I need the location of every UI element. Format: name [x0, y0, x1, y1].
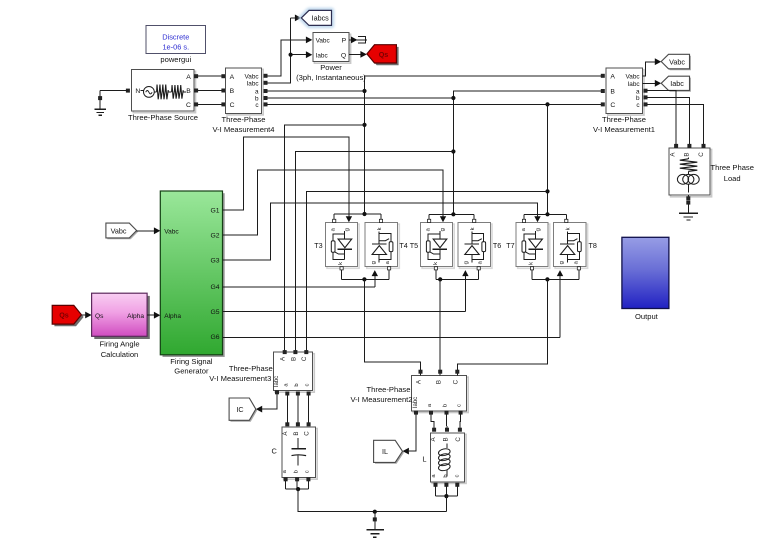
svg-text:B: B [435, 380, 442, 384]
svg-text:Load: Load [724, 174, 741, 183]
svg-text:g: g [371, 261, 377, 264]
svg-text:L: L [422, 454, 426, 463]
svg-text:P: P [342, 38, 347, 45]
svg-text:Firing Signal: Firing Signal [170, 357, 213, 366]
wire branch up to Iabcs tag [291, 15, 302, 55]
svg-text:Iabc: Iabc [670, 79, 684, 88]
svg-text:Output: Output [635, 312, 659, 321]
thyristor T6 [458, 223, 501, 269]
block Three-Phase V-I Measurement2 [350, 376, 468, 413]
svg-text:T3: T3 [314, 241, 322, 250]
junction phase a at capacitor branch [362, 123, 366, 127]
goto tag IC [229, 398, 257, 422]
svg-text:Vabc: Vabc [111, 226, 127, 235]
junction on Iabc wire [289, 53, 293, 57]
wire Measurement1 Vabc to Vabc goto [642, 58, 661, 76]
goto tag IL [374, 440, 404, 464]
junction phase b at capacitor branch [451, 149, 455, 153]
svg-text:g: g [535, 228, 541, 231]
svg-text:Calculation: Calculation [101, 350, 139, 359]
svg-text:Iabc: Iabc [628, 81, 641, 88]
block Firing Angle Calculation [92, 293, 150, 359]
wire Measurement3 c to C block C [307, 392, 310, 426]
svg-text:b: b [636, 95, 640, 102]
Measurement2 top ports [419, 370, 459, 375]
thyristor T3 [314, 223, 359, 269]
ground at bottom [367, 512, 384, 538]
pair2 anode tee (phase b) [428, 212, 476, 222]
svg-text:g: g [440, 228, 446, 231]
svg-text:Q: Q [341, 52, 346, 59]
svg-text:Power: Power [320, 63, 342, 72]
svg-text:V-I Measurement1: V-I Measurement1 [593, 125, 655, 134]
svg-text:k: k [338, 262, 344, 265]
thyristor T7 [506, 223, 550, 269]
wire G6 to T8 gate [223, 270, 564, 337]
svg-text:A: A [186, 74, 191, 81]
svg-text:a: a [255, 89, 259, 96]
svg-text:Alpha: Alpha [127, 313, 144, 320]
ground at source (wire+symbol) [94, 91, 128, 116]
svg-text:1e-06 s.: 1e-06 s. [162, 43, 189, 52]
svg-text:Qs: Qs [59, 311, 69, 320]
svg-text:Iabc: Iabc [274, 376, 280, 387]
wire G5 to T6 gate [223, 270, 469, 311]
block powergui (Discrete 1e-06 s.) [146, 26, 206, 64]
riser phase b with corner to Measurement1 B [453, 89, 604, 214]
block Three-Phase V-I Measurement3 [209, 352, 314, 392]
svg-text:Firing Angle: Firing Angle [99, 340, 139, 349]
svg-text:C: C [304, 431, 311, 436]
wire source B to Measurement4 B [195, 89, 226, 92]
wire Power P to terminator [349, 37, 357, 44]
svg-text:Alpha: Alpha [164, 313, 181, 320]
block Output (scope image) [622, 237, 669, 321]
Measurement3 top ports [283, 351, 308, 354]
wire Measurement3 a to C block A [286, 392, 289, 426]
svg-text:B: B [684, 152, 691, 156]
svg-text:B: B [186, 88, 191, 95]
svg-text:g: g [464, 261, 470, 264]
pair1 cathode tee [340, 267, 391, 282]
svg-text:Vabc: Vabc [669, 57, 685, 66]
svg-text:C: C [230, 102, 235, 109]
svg-text:G1: G1 [211, 208, 220, 215]
svg-text:Iabc: Iabc [247, 81, 260, 88]
svg-text:k: k [529, 262, 535, 265]
svg-text:Iabc: Iabc [413, 397, 419, 408]
wire Qs tag to Firing Angle Calculation [81, 312, 91, 319]
junction phase b at bus [451, 96, 455, 100]
svg-text:c: c [455, 474, 461, 477]
riser phase c [547, 104, 549, 214]
wire Measurement3 Iabc to IC goto [256, 391, 279, 413]
block Three-Phase Source [128, 70, 198, 123]
svg-text:B: B [230, 88, 235, 95]
wire source A to Measurement4 A [195, 75, 226, 78]
svg-text:b: b [294, 383, 300, 386]
load ports A B C [675, 144, 706, 147]
goto tag Qs (top) [367, 45, 399, 65]
wire Measurement2 Iabc to IL goto [403, 411, 418, 455]
block Firing Signal Generator [160, 191, 224, 376]
svg-text:k: k [470, 227, 476, 230]
pair1 anode tee (phase a) [333, 212, 383, 223]
svg-text:A: A [230, 74, 235, 81]
svg-text:g: g [345, 228, 351, 231]
wire Measurement1 b to load B [644, 96, 690, 144]
thyristor T8 [554, 223, 597, 269]
riser phase a with corner to Measurement1 A [365, 74, 605, 214]
svg-text:c: c [305, 383, 311, 386]
svg-text:Iabc: Iabc [316, 52, 329, 59]
svg-text:Vabc: Vabc [245, 73, 260, 80]
wire G2 to T5 gate [223, 170, 447, 235]
svg-text:G5: G5 [211, 309, 220, 316]
svg-text:C: C [455, 437, 462, 442]
wire pair3 bottom to Measurement2 C [458, 279, 548, 370]
goto tag Vabc (top right) [661, 54, 691, 70]
svg-text:G6: G6 [211, 334, 220, 341]
wire bus phase c (Measurement4 c to Measurement1 C) [264, 103, 605, 106]
block Three Phase Load [669, 148, 754, 197]
svg-text:A: A [610, 74, 615, 81]
svg-text:Generator: Generator [174, 367, 209, 376]
wire Measurement1 a to load A [644, 89, 676, 144]
svg-text:C: C [301, 356, 308, 361]
svg-text:T6: T6 [493, 241, 501, 250]
svg-text:C: C [186, 102, 191, 109]
svg-text:T8: T8 [589, 241, 597, 250]
wire pair2 bottom to Measurement2 B [439, 279, 441, 370]
block Three-Phase V-I Measurement1 [593, 68, 655, 134]
svg-text:B: B [293, 431, 300, 435]
svg-text:b: b [443, 474, 449, 477]
svg-text:C: C [610, 102, 615, 109]
goto tag Iabc (top right) [661, 76, 691, 92]
svg-text:T4: T4 [399, 241, 407, 250]
svg-text:powergui: powergui [160, 55, 191, 64]
wire G4 to T4 gate [223, 270, 379, 287]
bottom ground junction [373, 510, 377, 514]
svg-text:g: g [559, 261, 565, 264]
svg-text:Vabc: Vabc [626, 73, 641, 80]
junction phase c at capacitor branch [545, 189, 549, 193]
svg-text:Qs: Qs [95, 313, 104, 320]
wire pair1 bottom to Measurement2 A [364, 279, 420, 370]
svg-text:Three-Phase: Three-Phase [602, 115, 646, 124]
wire Alpha to generator [147, 312, 160, 319]
block Power (3ph, Instantaneous) [296, 33, 366, 82]
wire Vabc tag to generator [137, 227, 161, 234]
from tag Vabc (left) [106, 223, 138, 239]
svg-text:V-I Measurement2: V-I Measurement2 [350, 395, 412, 404]
wire source C to Measurement4 C [195, 103, 226, 106]
svg-text:G3: G3 [211, 258, 220, 265]
wire L outputs to bottom bus [434, 483, 459, 512]
svg-text:C: C [453, 379, 460, 384]
wire Power Q to Qs goto [349, 51, 367, 58]
pair3 cathode tee [530, 267, 580, 282]
svg-text:B: B [610, 89, 615, 96]
thyristor T4 [365, 223, 408, 269]
block Three-Phase V-I Measurement4 [212, 68, 274, 134]
svg-text:Three Phase: Three Phase [710, 163, 753, 172]
svg-text:k: k [377, 227, 383, 230]
svg-text:B: B [290, 357, 297, 361]
svg-text:C: C [698, 152, 705, 157]
svg-text:Qs: Qs [379, 50, 389, 59]
svg-text:b: b [293, 470, 299, 473]
svg-text:B: B [442, 437, 449, 441]
svg-text:IC: IC [236, 405, 243, 414]
wire branch phase b to Measurement3 B [295, 152, 453, 351]
thyristor T5 [410, 223, 454, 269]
wire Measurement2 a to L block A [429, 411, 435, 431]
junction phase a at bus [362, 89, 366, 93]
wire Measurement1 Iabc to Iabc goto [642, 80, 661, 87]
from tag Qs (left) [52, 305, 83, 326]
svg-text:c: c [305, 470, 311, 473]
block C (three-phase capacitor) [271, 427, 317, 479]
wire G1 to T3 gate [223, 137, 353, 223]
wire branch phase a to Measurement3 A [285, 125, 365, 351]
svg-text:Iabcs: Iabcs [312, 14, 330, 23]
wire G3 to T7 gate [223, 203, 541, 260]
svg-text:Vabc: Vabc [164, 229, 179, 236]
svg-text:b: b [443, 404, 449, 407]
svg-text:c: c [457, 404, 463, 407]
wire Measurement4 Vabc to Power Vabc [264, 37, 312, 78]
svg-text:Three-Phase Source: Three-Phase Source [128, 113, 198, 122]
port N of source [126, 89, 129, 92]
svg-text:k: k [433, 262, 439, 265]
svg-text:Discrete: Discrete [162, 33, 189, 42]
block L (three-phase inductor) [422, 433, 466, 484]
svg-text:G4: G4 [211, 284, 220, 291]
svg-text:(3ph, Instantaneous): (3ph, Instantaneous) [296, 73, 366, 82]
svg-text:IL: IL [382, 447, 388, 456]
pair2 cathode tee [434, 267, 480, 282]
svg-text:T5: T5 [410, 241, 418, 250]
pair3 anode tee (phase c) [522, 212, 568, 222]
ground under load [679, 195, 698, 220]
svg-text:V-I Measurement3: V-I Measurement3 [209, 374, 271, 383]
wire Measurement3 b to C block B [296, 392, 299, 426]
svg-text:Three-Phase: Three-Phase [229, 364, 273, 373]
wire bus phase b (Measurement4 b to riser) [264, 96, 454, 99]
wire bus phase a (Measurement4 a to riser) [264, 89, 365, 92]
svg-text:V-I Measurement4: V-I Measurement4 [212, 125, 274, 134]
svg-text:C: C [271, 446, 277, 455]
terminator on P output [356, 36, 367, 44]
wire Measurement4 Iabc to Power Iabc and Iabcs goto [264, 51, 312, 84]
wire branch phase c to Measurement3 C [306, 191, 547, 350]
goto tag Iabcs (selected, blue halo) [301, 10, 331, 25]
svg-text:Three-Phase: Three-Phase [222, 115, 266, 124]
wire Measurement2 c to L block C [458, 411, 462, 431]
wire C block outputs to bottom bus [284, 478, 446, 512]
wire Measurement2 b to L block B [445, 411, 449, 431]
svg-text:k: k [565, 227, 571, 230]
svg-text:Three-Phase: Three-Phase [367, 385, 411, 394]
svg-text:G2: G2 [211, 232, 220, 239]
svg-text:Vabc: Vabc [316, 38, 331, 45]
svg-text:N: N [135, 88, 140, 95]
svg-text:T7: T7 [506, 241, 514, 250]
wire Measurement1 c to load C [644, 103, 704, 144]
junction phase c at bus [545, 102, 549, 106]
